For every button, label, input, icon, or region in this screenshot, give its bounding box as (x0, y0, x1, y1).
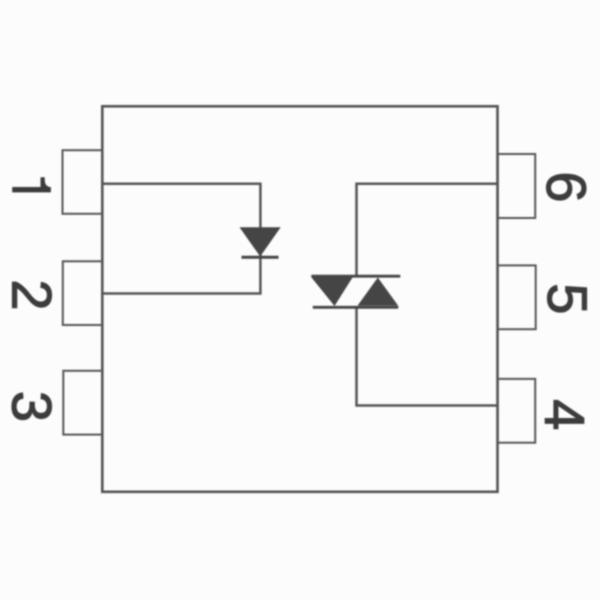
svg-text:3: 3 (1, 391, 64, 422)
wire triac vertical lower (355, 307, 358, 407)
triac Q1 top bar (311, 275, 400, 278)
wire pin6 to triac MT2 (356, 183, 498, 186)
pin 1 label (12, 177, 51, 192)
pin 3 pad (63, 371, 102, 435)
wire pin1 to LED anode (103, 182, 262, 185)
wire LED vertical (259, 183, 262, 295)
svg-text:4: 4 (534, 399, 597, 430)
pin 4 pad (498, 379, 536, 443)
svg-text:2: 2 (1, 279, 64, 310)
wire triac vertical upper (355, 183, 358, 277)
pin 2 pad (63, 261, 103, 325)
svg-text:5: 5 (536, 283, 599, 314)
triac Q1 bottom bar (313, 306, 399, 309)
pin 6 pad (498, 154, 535, 218)
pin 1 pad (63, 150, 103, 214)
LED D1 cathode bar (242, 256, 279, 259)
triac Q1 right triangle (358, 278, 399, 306)
pin 5 pad (498, 265, 536, 329)
LED D1 triangle (240, 227, 281, 256)
wire pin4 to triac MT1 (356, 404, 498, 407)
IC body outline U1 (102, 106, 497, 492)
wire pin2 to LED cathode (103, 292, 262, 295)
triac Q1 left triangle (312, 278, 353, 307)
svg-text:6: 6 (535, 171, 598, 202)
